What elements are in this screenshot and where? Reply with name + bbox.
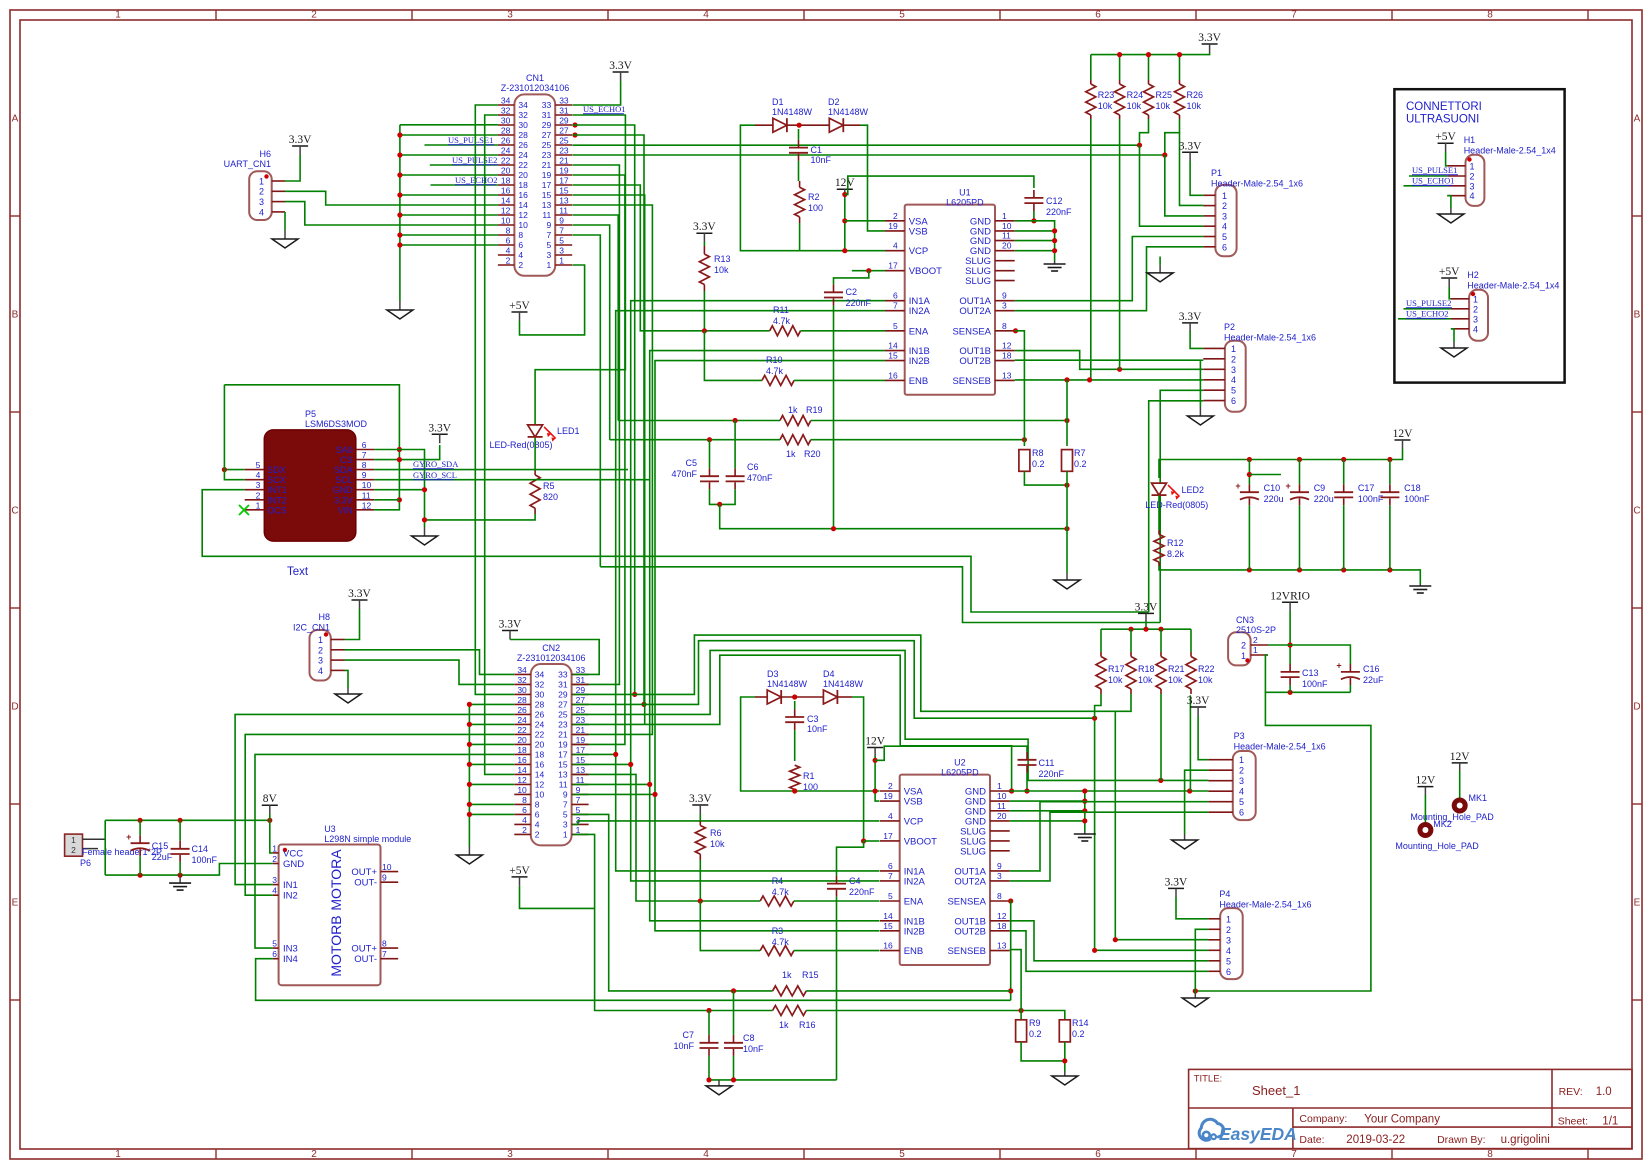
capacitor C2 220nF (824, 284, 872, 308)
wire U1 OUT2B to P2 pin2 and ground (1015, 360, 1204, 407)
svg-text:7: 7 (563, 800, 568, 810)
svg-text:C10: C10 (1264, 483, 1281, 493)
svg-text:1: 1 (318, 635, 323, 645)
wire SENSEB U1 to P2 pin4 (1015, 377, 1204, 446)
svg-text:100: 100 (803, 782, 818, 792)
svg-text:+: + (1286, 481, 1291, 491)
svg-text:U2: U2 (954, 758, 966, 768)
svg-text:12V: 12V (1393, 428, 1414, 440)
svg-text:10k: 10k (1168, 675, 1183, 685)
svg-text:R12: R12 (1167, 538, 1184, 548)
svg-text:3.3V: 3.3V (1179, 311, 1202, 323)
wire P4 pin2 to gnd loop (1195, 929, 1208, 991)
svg-text:3: 3 (1226, 935, 1231, 945)
wire P6 rails (105, 818, 273, 878)
svg-text:Text: Text (287, 566, 309, 578)
svg-text:2: 2 (318, 645, 323, 655)
wire H2 pin3 US_ECHO2 (1398, 318, 1451, 320)
ground below CN2 trunk (468, 846, 470, 855)
svg-text:CONNETTORI: CONNETTORI (1406, 101, 1482, 113)
svg-text:6: 6 (518, 240, 523, 250)
svg-text:R3: R3 (772, 926, 784, 936)
power 3.3V at P3 (1187, 695, 1210, 760)
wire CN1 pin25 long to R25 (573, 144, 1140, 146)
ground below CN1 trunk (399, 301, 401, 310)
wire P5 SA0 down to GND trunk (374, 450, 424, 528)
wire second long bottom net to OUT2B loop (600, 567, 1160, 623)
wire CN1 pin9 down to R20 (573, 225, 610, 440)
wire CN1 pin19 down to CN2 pin19 (573, 175, 625, 744)
svg-text:4: 4 (522, 815, 527, 825)
connector CN3 2510S-2P (1228, 615, 1276, 665)
capacitor C13 100nF (1281, 664, 1328, 692)
svg-text:8V: 8V (263, 793, 278, 805)
svg-text:10: 10 (517, 785, 527, 795)
svg-text:OUT-: OUT- (354, 878, 377, 889)
svg-text:10nF: 10nF (811, 155, 832, 165)
svg-text:8: 8 (1487, 1149, 1493, 1160)
node D1-D2 junction (797, 123, 802, 128)
svg-text:6: 6 (362, 440, 367, 450)
svg-text:26: 26 (535, 710, 545, 720)
svg-text:10nF: 10nF (673, 1041, 694, 1051)
svg-text:2: 2 (1231, 354, 1236, 364)
svg-text:21: 21 (542, 160, 552, 170)
svg-text:R25: R25 (1156, 90, 1173, 100)
wire CN1 pin34 to CN2 pin30 (475, 105, 514, 694)
svg-text:18: 18 (535, 750, 545, 760)
svg-text:2: 2 (259, 187, 264, 197)
svg-text:24: 24 (517, 715, 527, 725)
svg-text:C: C (11, 506, 18, 517)
svg-text:R19: R19 (806, 405, 823, 415)
svg-text:100: 100 (808, 203, 823, 213)
svg-text:US_PULSE1: US_PULSE1 (448, 135, 493, 145)
svg-text:6: 6 (506, 236, 511, 246)
svg-text:3.3V: 3.3V (1165, 876, 1188, 888)
svg-text:VSB: VSB (904, 797, 923, 808)
power 3.3V at H8 (345, 588, 372, 640)
svg-text:30: 30 (517, 685, 527, 695)
svg-text:H1: H1 (1464, 135, 1476, 145)
wire CN1 pin23 long to R26 (573, 154, 1165, 156)
svg-text:11: 11 (362, 490, 371, 500)
mounting hole MK2 (1395, 775, 1479, 851)
ground below H2 (1453, 342, 1455, 348)
svg-text:5: 5 (899, 10, 905, 21)
wire CN1 pin32 to CN2 pin14 (485, 115, 515, 774)
svg-text:R15: R15 (802, 970, 819, 980)
wire R17 bottom jog (1095, 694, 1101, 718)
svg-text:US_ECHO2: US_ECHO2 (1406, 309, 1449, 319)
svg-text:8.2k: 8.2k (1167, 549, 1185, 559)
wire H8 pin3 to CN2 pin32 (345, 660, 515, 684)
svg-text:4.7k: 4.7k (773, 316, 791, 326)
svg-text:18: 18 (517, 745, 527, 755)
svg-text:SENSEB: SENSEB (947, 946, 986, 957)
svg-text:10: 10 (382, 862, 392, 872)
power 3.3V at R23 rail (1091, 32, 1222, 55)
resistor R23 10k (1086, 55, 1115, 119)
svg-text:1: 1 (259, 176, 264, 186)
power 3.3V at CN1 pin33 (573, 60, 633, 105)
svg-text:22uF: 22uF (1363, 675, 1384, 685)
svg-text:12V: 12V (1415, 775, 1436, 787)
svg-text:VSB: VSB (909, 226, 928, 237)
svg-text:10k: 10k (1127, 101, 1142, 111)
svg-text:33: 33 (558, 670, 568, 680)
svg-text:10k: 10k (1108, 675, 1123, 685)
svg-text:1N4148W: 1N4148W (772, 107, 813, 117)
svg-text:100nF: 100nF (1358, 494, 1384, 504)
svg-text:11: 11 (1002, 231, 1011, 241)
svg-text:C11: C11 (1039, 758, 1055, 768)
wire U1 IN2A vertical to U2 IN1A (616, 311, 885, 871)
svg-text:2: 2 (311, 10, 317, 21)
svg-text:220nF: 220nF (846, 298, 872, 308)
svg-text:17: 17 (542, 180, 552, 190)
svg-text:9: 9 (382, 873, 387, 883)
svg-text:34: 34 (518, 100, 528, 110)
svg-text:Header-Male-2.54_1x6: Header-Male-2.54_1x6 (1224, 333, 1316, 343)
svg-text:5: 5 (888, 891, 893, 901)
capacitor C4 220nF (827, 876, 875, 1080)
wire R26 bottom jog to wire B and P1 pin2 (1162, 119, 1203, 205)
svg-text:2: 2 (522, 825, 527, 835)
svg-text:8: 8 (522, 795, 527, 805)
svg-text:10k: 10k (1138, 675, 1153, 685)
wire R16 right to R14 and SENSEB U2 (706, 950, 1064, 1020)
svg-text:R8: R8 (1032, 448, 1044, 458)
svg-text:MOTORB: MOTORB (328, 915, 344, 976)
wire CN2 left trunk to ground (467, 702, 514, 846)
svg-text:+5V: +5V (1435, 131, 1456, 143)
svg-text:Z-231012034106: Z-231012034106 (501, 83, 570, 93)
svg-text:10: 10 (518, 220, 528, 230)
wire CN1 pin1 to +5V (520, 265, 585, 335)
svg-text:11: 11 (542, 210, 551, 220)
svg-text:17: 17 (888, 261, 898, 271)
svg-text:14: 14 (518, 200, 528, 210)
wire U3 IN4 to bottom rail (256, 959, 1011, 1001)
svg-text:R13: R13 (714, 254, 731, 264)
svg-text:3.3V: 3.3V (499, 619, 522, 631)
svg-text:220nF: 220nF (1046, 207, 1072, 217)
svg-text:3.3V: 3.3V (348, 588, 371, 600)
svg-text:10: 10 (1002, 221, 1012, 231)
svg-text:C17: C17 (1358, 483, 1375, 493)
svg-text:R18: R18 (1138, 664, 1155, 674)
wire P2 pin6 to loop (1149, 401, 1204, 612)
module P5 LSM6DS3MOD (245, 409, 375, 541)
svg-text:34: 34 (517, 665, 527, 675)
svg-text:H6: H6 (259, 149, 271, 159)
ground below H8 (347, 688, 349, 694)
ground below P4 loop (1194, 993, 1196, 998)
svg-text:US_ECHO2: US_ECHO2 (455, 175, 498, 185)
wire C11 bottom to GND1 U2 (1024, 773, 1029, 794)
power +5V at H1 (1435, 131, 1456, 166)
svg-text:R7: R7 (1074, 448, 1086, 458)
svg-text:2: 2 (1241, 641, 1246, 651)
resistor R15 1k (773, 970, 819, 996)
svg-text:+: + (1235, 481, 1240, 491)
svg-text:E: E (1634, 898, 1641, 909)
resistor R7 0.2 (1062, 448, 1087, 471)
wire R5 bottom to P5 gnd (425, 514, 536, 520)
svg-text:22: 22 (501, 156, 511, 166)
wire U1 IN1B vertical to U2 IN1B (650, 351, 885, 921)
svg-text:+: + (126, 832, 131, 842)
svg-text:A: A (1634, 114, 1641, 125)
svg-text:1N4148W: 1N4148W (767, 679, 808, 689)
capacitor C16 22uF (1336, 661, 1384, 693)
op-amp U1 L6205PD motor driver (885, 188, 1015, 395)
wire CN1 pin22 net US_PULSE2 (430, 164, 498, 166)
wire C1 bottom to R2 (798, 161, 800, 181)
svg-text:IN3: IN3 (283, 944, 298, 955)
wire 12V to C12 top (845, 176, 1034, 194)
ground at U2 GND (1084, 831, 1086, 834)
wire CN1 left pin to trunk (400, 234, 498, 236)
resistor R16 1k (773, 1006, 816, 1031)
svg-text:4.7k: 4.7k (772, 887, 790, 897)
svg-text:9: 9 (576, 785, 581, 795)
svg-text:11: 11 (559, 206, 568, 216)
wire H1 pin4 to ground (1447, 196, 1451, 208)
connector P4 Header-Male-2.54_1x6 (1208, 889, 1311, 979)
svg-text:18: 18 (1002, 351, 1012, 361)
svg-text:4: 4 (518, 250, 523, 260)
svg-text:Header-Male-2.54_1x4: Header-Male-2.54_1x4 (1467, 280, 1559, 290)
svg-text:30: 30 (535, 690, 545, 700)
svg-text:D: D (1633, 702, 1640, 713)
svg-text:0.2: 0.2 (1032, 459, 1045, 469)
resistor R20 1k (780, 435, 821, 459)
svg-text:5: 5 (1222, 232, 1227, 242)
svg-text:8: 8 (1487, 10, 1493, 21)
svg-text:7: 7 (1291, 10, 1297, 21)
svg-text:L6205PD: L6205PD (941, 768, 979, 778)
wire U1 GND pins to ground (1015, 221, 1057, 261)
wire LED2 bottom rail to ground (1159, 566, 1420, 584)
power 3.3V at H6 (285, 134, 312, 181)
resistor R1 100 (790, 765, 818, 792)
wire CN1 pin17 down to R11 ENA U1 (573, 185, 770, 331)
svg-text:3.3V: 3.3V (1179, 140, 1202, 152)
svg-text:220u: 220u (1314, 494, 1334, 504)
svg-text:19: 19 (576, 735, 586, 745)
svg-text:3: 3 (1222, 211, 1227, 221)
svg-text:9: 9 (559, 216, 564, 226)
resistor R26 10k (1175, 52, 1204, 119)
power 3.3V at P5 (432, 433, 448, 435)
wire CN2 pin18 to U3 IN3 (255, 754, 514, 948)
power 12V at cap bank (1159, 428, 1413, 478)
svg-text:US_PULSE2: US_PULSE2 (1406, 298, 1451, 308)
connector CN1 Z-231012034106 (498, 73, 572, 276)
svg-text:9: 9 (1002, 291, 1007, 301)
svg-text:9: 9 (563, 790, 568, 800)
svg-text:OUT2A: OUT2A (959, 306, 991, 317)
svg-text:7: 7 (1291, 1149, 1297, 1160)
svg-text:6: 6 (535, 810, 540, 820)
svg-text:2: 2 (1239, 766, 1244, 776)
svg-text:R11: R11 (773, 305, 789, 315)
resistor R10 4.7k (762, 355, 794, 385)
svg-text:10k: 10k (1198, 675, 1213, 685)
svg-text:Female header1*2P: Female header1*2P (82, 847, 162, 857)
svg-text:1: 1 (115, 10, 121, 21)
svg-text:10k: 10k (714, 265, 729, 275)
svg-text:I2C_CN1: I2C_CN1 (293, 622, 330, 632)
svg-text:23: 23 (576, 715, 586, 725)
svg-text:0.2: 0.2 (1029, 1029, 1042, 1039)
wire CN1 left pin to trunk (400, 154, 498, 156)
power 3.3V at R17 rail (1101, 601, 1191, 631)
wire P5 SDX SCX loop to VIN (222, 385, 400, 510)
svg-text:1k: 1k (779, 1020, 789, 1030)
svg-text:R2: R2 (808, 192, 820, 202)
wire P3 pin6 from U2 OUT2A (1010, 812, 1209, 881)
frame CONNETTORI ULTRASUONI (1394, 89, 1564, 382)
svg-text:16: 16 (518, 190, 528, 200)
svg-text:8: 8 (506, 226, 511, 236)
svg-text:R9: R9 (1029, 1018, 1041, 1028)
svg-text:SENSEB: SENSEB (952, 376, 991, 387)
diode D4 1N4148W (807, 669, 864, 704)
svg-text:IN1: IN1 (283, 880, 298, 891)
svg-text:OUT+: OUT+ (351, 944, 377, 955)
wire D1 anode loop to VCP line (740, 125, 799, 251)
svg-text:15: 15 (883, 921, 893, 931)
svg-text:D2: D2 (828, 97, 840, 107)
svg-text:5: 5 (546, 240, 551, 250)
svg-text:29: 29 (576, 685, 586, 695)
svg-text:27: 27 (576, 695, 586, 705)
svg-text:18: 18 (997, 921, 1007, 931)
wire CN2 pin15 tap (573, 762, 633, 767)
svg-text:10: 10 (997, 791, 1007, 801)
svg-text:R21: R21 (1168, 664, 1185, 674)
svg-text:Z-231012034106: Z-231012034106 (517, 653, 586, 663)
svg-text:2: 2 (256, 490, 261, 500)
svg-text:34: 34 (501, 96, 511, 106)
svg-text:LED2: LED2 (1182, 485, 1205, 495)
svg-text:6: 6 (522, 805, 527, 815)
svg-text:1.0: 1.0 (1596, 1086, 1612, 1098)
svg-text:ENB: ENB (904, 946, 924, 957)
connector P3 Header-Male-2.54_1x6 (1208, 731, 1325, 820)
resistor R22 10k (1186, 629, 1215, 694)
svg-text:19: 19 (888, 221, 898, 231)
resistor R11 4.7k (770, 305, 801, 336)
svg-text:17: 17 (558, 750, 568, 760)
svg-text:GND: GND (333, 485, 354, 495)
svg-text:6: 6 (1222, 242, 1227, 252)
wire 12V to C11 rail (875, 746, 1027, 760)
wire CN1 pin27 (572, 132, 646, 707)
diode D2 1N4148W (812, 97, 869, 132)
logo EasyEDA (1199, 1119, 1297, 1144)
wire P3 pin2 to ground (1185, 770, 1209, 834)
svg-text:12VRIO: 12VRIO (1270, 590, 1310, 602)
svg-text:16: 16 (535, 760, 545, 770)
wire H2 pin4 to ground (1451, 329, 1454, 342)
svg-text:5: 5 (899, 1149, 905, 1160)
wire CN1 pin15 down to CN2 pin23 (573, 195, 645, 724)
svg-text:12: 12 (517, 775, 527, 785)
wire LED2 to R12 (1158, 496, 1160, 531)
svg-text:5: 5 (256, 460, 261, 470)
svg-text:2: 2 (1253, 635, 1258, 645)
svg-text:VIN: VIN (338, 505, 353, 515)
wire R19 row (618, 418, 1069, 423)
svg-text:D1: D1 (772, 97, 784, 107)
svg-text:H2: H2 (1467, 270, 1479, 280)
svg-text:10: 10 (362, 480, 372, 490)
wire CN2 pin11 tap (573, 782, 652, 787)
svg-text:D3: D3 (767, 669, 779, 679)
svg-text:3.3V: 3.3V (334, 495, 353, 505)
svg-text:R16: R16 (799, 1020, 816, 1030)
svg-text:24: 24 (535, 720, 545, 730)
wire H1 pin3 US_ECHO1 (1404, 185, 1448, 187)
svg-text:+5V: +5V (1439, 266, 1460, 278)
svg-text:ENA: ENA (904, 897, 924, 908)
power 12VRIO (1270, 590, 1310, 664)
svg-text:LED-Red(0805): LED-Red(0805) (489, 440, 552, 450)
svg-text:27: 27 (558, 700, 568, 710)
svg-text:28: 28 (518, 130, 528, 140)
svg-text:R10: R10 (766, 355, 783, 365)
wire H6 pin4 to ground (284, 212, 286, 230)
wire R10 to ENB (794, 379, 885, 381)
svg-text:4: 4 (1226, 946, 1231, 956)
power +5V below CN1 (512, 311, 528, 313)
svg-text:31: 31 (559, 106, 569, 116)
wire R11 to ENA (801, 330, 886, 332)
svg-text:32: 32 (518, 110, 528, 120)
svg-text:13: 13 (559, 196, 569, 206)
wire bridge CN2 pin27 to R17 column P4 pin4 (573, 641, 1208, 953)
svg-text:CS: CS (340, 455, 353, 465)
svg-text:P5: P5 (305, 409, 316, 419)
svg-text:C13: C13 (1302, 668, 1319, 678)
svg-text:ENA: ENA (909, 326, 929, 337)
wire R23 bottom long to P2 pin4 (1090, 119, 1092, 380)
svg-text:23: 23 (559, 146, 569, 156)
svg-text:1: 1 (115, 1149, 121, 1160)
svg-text:R23: R23 (1098, 90, 1115, 100)
svg-text:820: 820 (543, 492, 558, 502)
svg-text:7: 7 (362, 450, 367, 460)
svg-text:1: 1 (1239, 755, 1244, 765)
svg-text:3.3V: 3.3V (428, 422, 451, 434)
svg-text:26: 26 (518, 140, 528, 150)
wire P5 GND to trunk (374, 487, 427, 522)
capacitor C17 100nF (1334, 460, 1384, 570)
svg-text:MK1: MK1 (1469, 793, 1488, 803)
svg-text:6: 6 (1095, 1149, 1101, 1160)
svg-text:1: 1 (1222, 191, 1227, 201)
power 12V at U1 (835, 177, 856, 253)
svg-text:VCC: VCC (283, 848, 303, 859)
svg-text:30: 30 (518, 120, 528, 130)
svg-text:31: 31 (558, 680, 568, 690)
resistor R12 8.2k (1154, 530, 1185, 566)
power 3.3V at P4 (1165, 876, 1209, 918)
